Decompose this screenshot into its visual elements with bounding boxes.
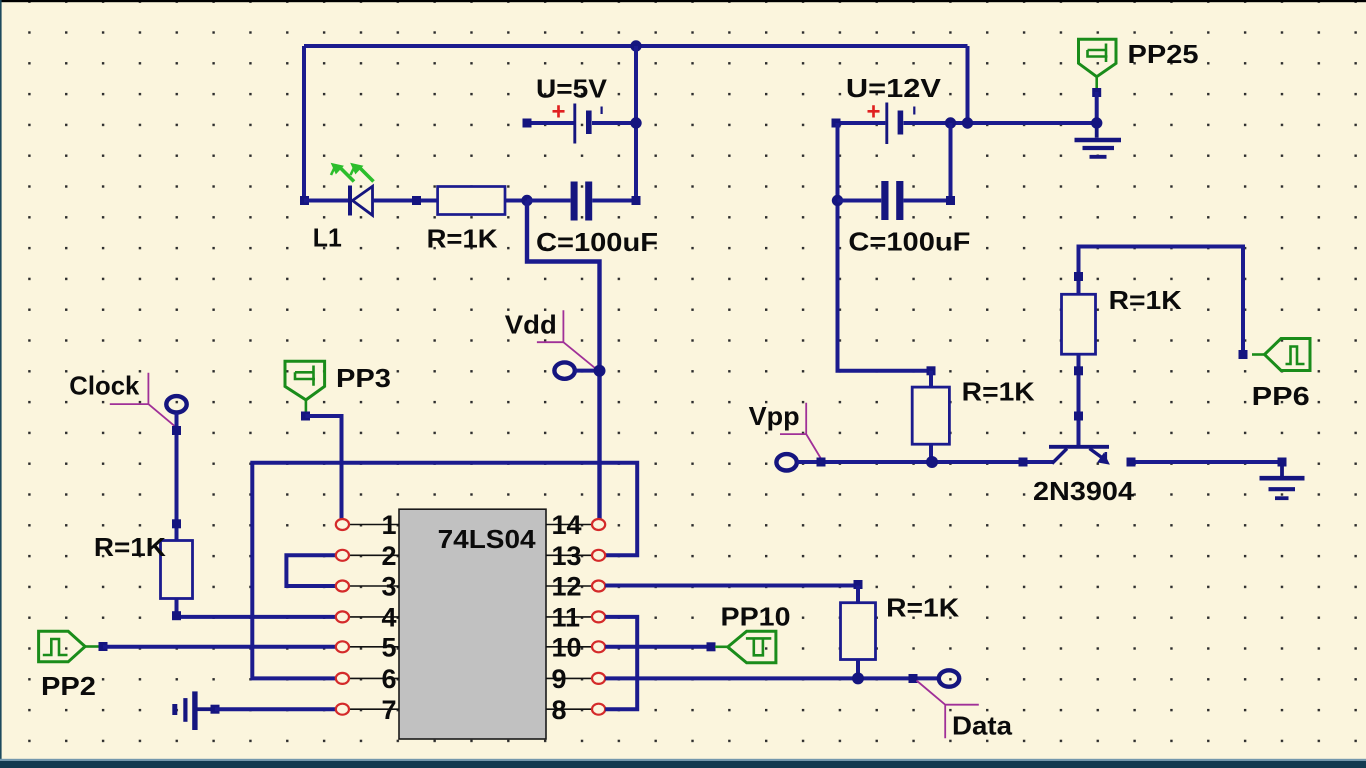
pad ground pin7 xyxy=(211,705,220,714)
pin circle 3 xyxy=(336,581,349,592)
pad cap 5V right xyxy=(632,196,641,205)
pin circle 14 xyxy=(592,519,605,530)
net label Vdd pointer xyxy=(537,310,598,370)
battery U=5V plus plate xyxy=(573,104,576,144)
pad transistor base left xyxy=(1019,458,1028,467)
wire pin 12 to R xyxy=(605,584,858,588)
probe PP10 body xyxy=(728,631,776,663)
svg-text:R=1K: R=1K xyxy=(962,377,1035,407)
battery U=12V plus plate xyxy=(885,103,888,145)
wire cap 5V row xyxy=(527,199,636,203)
junction PP25 ground xyxy=(1091,117,1102,128)
probe PP25 glyph xyxy=(1088,44,1108,63)
pad LED right xyxy=(412,196,421,205)
IC U1 74LS04 body xyxy=(399,509,546,739)
LED L1 emission arrow 2 xyxy=(351,164,374,182)
net label Clock pointer xyxy=(110,373,175,426)
svg-text:U=5V: U=5V xyxy=(536,74,608,104)
svg-text:R=1K: R=1K xyxy=(94,532,166,562)
resistor R=1K (LED) xyxy=(438,187,505,215)
svg-text:6: 6 xyxy=(381,664,396,694)
pin circle 10 xyxy=(592,641,605,652)
svg-text:7: 7 xyxy=(381,695,396,725)
screen border top xyxy=(0,0,1366,2)
probe PP2 glyph xyxy=(43,639,68,655)
svg-text:R=1K: R=1K xyxy=(1109,285,1182,315)
pad emitter xyxy=(1127,458,1136,467)
pad transistor top xyxy=(1074,412,1083,421)
battery U=5V minus tick xyxy=(601,107,603,115)
wire ground to pin 7 xyxy=(215,707,337,711)
pad data R top xyxy=(854,580,863,589)
pin circle 2 xyxy=(336,550,349,561)
resistor R=1K (Clock) xyxy=(161,541,193,599)
pad LED corner xyxy=(300,196,309,205)
terminal Clock circle xyxy=(166,396,186,412)
svg-text:Vdd: Vdd xyxy=(505,310,557,340)
wire Clock drop xyxy=(175,413,179,541)
resistor R=1K (collector) xyxy=(1062,294,1096,354)
probe PP10 stem xyxy=(715,645,728,648)
svg-text:PP2: PP2 xyxy=(41,671,96,701)
wire emitter to ground xyxy=(1131,460,1282,464)
wire collector R bottom to transistor xyxy=(1077,354,1081,445)
pin circle 8 xyxy=(592,704,605,715)
wire pin 11 to pin 8 xyxy=(605,617,637,709)
pad Vpp R top xyxy=(927,366,936,375)
probe PP6 stem xyxy=(1252,353,1265,356)
pin circle 6 xyxy=(336,673,349,684)
pin circle 4 xyxy=(336,611,349,622)
svg-text:PP10: PP10 xyxy=(721,601,791,631)
junction 12V cap branch xyxy=(945,117,956,128)
pin circle 7 xyxy=(336,704,349,715)
capacitor C=100uF (5V) right plate xyxy=(585,182,592,221)
battery U=12V minus tick xyxy=(913,107,915,115)
resistor R=1K (Data) xyxy=(841,603,876,660)
wire LED left drop xyxy=(302,46,306,201)
pin lines right xyxy=(546,525,593,710)
probe PP10 glyph xyxy=(746,638,771,655)
junction Data node xyxy=(852,672,864,684)
net label Vpp pointer xyxy=(780,403,821,459)
svg-text:8: 8 xyxy=(552,695,567,725)
wire LED row xyxy=(304,199,348,203)
screen border bottom dark xyxy=(0,761,1366,768)
pad PP6 xyxy=(1239,350,1248,359)
wire pin 2 to pin 3 loop xyxy=(286,555,336,586)
probe PP3 glyph xyxy=(295,366,315,386)
pad Data stub xyxy=(909,674,918,683)
screen border left xyxy=(0,0,2,768)
svg-text:PP6: PP6 xyxy=(1252,381,1310,411)
wire 12V battery row xyxy=(836,121,1097,125)
svg-text:14: 14 xyxy=(552,510,582,540)
LED L1 triangle xyxy=(353,186,373,215)
svg-text:R=1K: R=1K xyxy=(427,224,498,254)
pad PP3 xyxy=(301,412,310,421)
pin circle 9 xyxy=(592,673,605,684)
pad Clock R top xyxy=(172,519,181,528)
transistor Q1 emitter arrowhead xyxy=(1098,454,1109,464)
junction 12V cap left xyxy=(832,195,843,206)
probe PP6 body xyxy=(1265,339,1311,371)
svg-text:L1: L1 xyxy=(313,223,342,253)
svg-text:5: 5 xyxy=(381,633,396,663)
transistor Q1 2N3904 xyxy=(1049,447,1109,464)
svg-text:Vpp: Vpp xyxy=(749,401,800,431)
svg-text:74LS04: 74LS04 xyxy=(438,524,537,554)
pad Clock upper xyxy=(172,426,181,435)
wire R to junction xyxy=(505,199,527,203)
svg-text:11: 11 xyxy=(552,603,581,633)
capacitor C=100uF (12V) left plate xyxy=(881,181,888,220)
pin circle 12 xyxy=(592,581,605,592)
svg-text:3: 3 xyxy=(381,572,396,602)
wire Vdd feed (junction down, over, down to pin 14) xyxy=(527,201,600,519)
wire 5V right branch xyxy=(634,46,638,201)
pad 12V battery left xyxy=(832,119,841,128)
wire LED to R xyxy=(373,199,438,203)
pad collector R top xyxy=(1074,272,1083,281)
ground (emitter) xyxy=(1260,462,1305,498)
junction 5V battery right xyxy=(630,117,641,128)
probe PP3 stem xyxy=(305,400,308,413)
svg-text:9: 9 xyxy=(552,664,567,694)
pad collector mid xyxy=(1074,366,1083,375)
capacitor C=100uF (5V) left plate xyxy=(571,182,578,221)
wire pin 10 to PP10 xyxy=(605,645,707,649)
wire data R verticals xyxy=(856,586,860,679)
screen border bottom light xyxy=(0,759,1366,761)
wire Vpp row xyxy=(797,460,1053,464)
probe PP25 body xyxy=(1079,39,1117,76)
svg-text:12: 12 xyxy=(552,572,582,602)
svg-text:4: 4 xyxy=(381,603,396,633)
wire PP3 to pin 1 xyxy=(306,416,342,519)
wire 5V battery row xyxy=(527,121,636,125)
resistor R=1K (Vpp) xyxy=(912,387,949,444)
wire top rail right drop xyxy=(966,46,970,123)
pad PP25 xyxy=(1092,88,1101,97)
wire 12V cap right riser xyxy=(949,123,953,201)
svg-text:C=100uF: C=100uF xyxy=(536,227,658,257)
wire 12V left riser xyxy=(838,123,932,371)
svg-text:R=1K: R=1K xyxy=(886,593,959,623)
pad cap 12V right xyxy=(946,196,955,205)
svg-text:PP3: PP3 xyxy=(336,363,391,393)
ground (top right) xyxy=(1075,123,1122,157)
svg-text:Data: Data xyxy=(952,711,1013,741)
LED L1 emission arrow 1 xyxy=(331,164,354,182)
svg-text:13: 13 xyxy=(552,541,582,571)
wire collector R top to PP6 corner xyxy=(1079,247,1244,355)
wire PP25 to ground rail xyxy=(1095,92,1099,123)
net label Data pointer xyxy=(917,681,979,739)
probe PP2 stem xyxy=(85,645,99,648)
battery U=5V minus plate xyxy=(586,111,592,135)
probe PP3 body xyxy=(285,361,325,400)
junction node LED/C xyxy=(521,195,532,206)
svg-text:PP25: PP25 xyxy=(1128,39,1199,69)
svg-text:2: 2 xyxy=(381,541,396,571)
svg-text:U=12V: U=12V xyxy=(846,73,942,103)
wire Vpp R verticals xyxy=(929,371,933,462)
pin circle 13 xyxy=(592,550,605,561)
wire top rail xyxy=(304,44,968,48)
pin lines left xyxy=(348,525,399,710)
terminal Vpp circle xyxy=(776,454,796,470)
wire pin 6 up over to pin 13 xyxy=(252,463,637,679)
wire Clock R bottom to pin 4 xyxy=(177,599,337,617)
svg-text:10: 10 xyxy=(552,633,582,663)
junction Vpp node xyxy=(926,456,938,468)
junction top rail xyxy=(630,40,641,51)
svg-text:Clock: Clock xyxy=(69,371,140,401)
svg-text:C=100uF: C=100uF xyxy=(848,227,970,257)
junction Vdd xyxy=(594,365,606,377)
pad PP2 xyxy=(99,642,108,651)
pad PP10 xyxy=(707,642,716,651)
probe PP25 stem xyxy=(1095,77,1098,92)
terminal Data circle xyxy=(939,670,959,686)
pad Vpp stub xyxy=(817,458,826,467)
wire Vdd stub xyxy=(575,369,594,373)
terminal Vdd circle xyxy=(554,362,574,378)
pad 5V battery left xyxy=(523,119,532,128)
battery U=12V minus plate xyxy=(898,111,904,135)
junction 12V top rail xyxy=(962,117,973,128)
pad Clock R bottom junction xyxy=(172,611,181,620)
pad ground right xyxy=(1278,458,1287,467)
probe PP2 body xyxy=(39,631,86,662)
pin circle 11 xyxy=(592,611,605,622)
capacitor C=100uF (12V) right plate xyxy=(896,181,903,220)
LED L1 cathode bar xyxy=(348,186,352,216)
svg-text:2N3904: 2N3904 xyxy=(1033,476,1135,506)
pin circle 1 xyxy=(336,519,349,530)
wire pin 9 to Data xyxy=(605,676,937,680)
svg-text:1: 1 xyxy=(381,510,396,540)
ground (pin 7) xyxy=(175,691,211,730)
probe PP6 glyph xyxy=(1286,347,1305,365)
pin circle 5 xyxy=(336,641,349,652)
wire PP2 to pin 5 xyxy=(103,645,337,649)
wire cap 12V row xyxy=(838,199,951,203)
